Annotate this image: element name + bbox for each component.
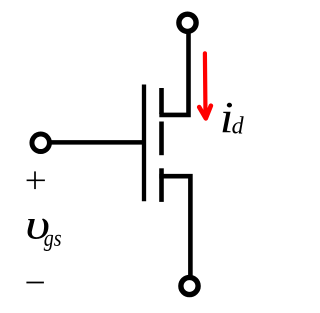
MOSFET channel dash bottom <box>159 168 164 202</box>
terminal circle (source, bottom) <box>181 277 198 294</box>
MOSFET M1 gate bar <box>142 85 146 202</box>
MOSFET channel dash top <box>159 88 164 114</box>
wire gate horizontal <box>51 140 146 145</box>
MOSFET channel dash middle <box>159 122 164 156</box>
plus sign <box>27 171 45 189</box>
minus sign <box>26 282 44 284</box>
current arrow i_d (red) <box>199 53 211 118</box>
terminal circle (gate, left) <box>32 134 50 152</box>
svg-text:gs: gs <box>44 225 62 252</box>
svg-text:d: d <box>232 114 245 140</box>
wire source horizontal tap + vertical down <box>159 176 190 277</box>
terminal circle (drain, top) <box>179 14 196 31</box>
wire drain vertical + horizontal tap <box>159 32 188 115</box>
